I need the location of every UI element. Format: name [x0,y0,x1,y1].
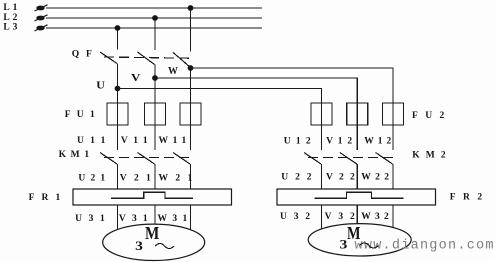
relay FR1 heater element [111,192,193,198]
breaker QF pole 3 blade [173,52,191,67]
wire FR1 to motor M1 phase U [117,205,119,232]
wire FR2 to motor M2 phase U [321,205,323,231]
junction dot L3 tap [115,25,121,31]
wire W phase vertical QF to KM1 [190,68,192,151]
breaker QF linkage dashed [104,57,190,58]
wire L2 rail [46,17,262,19]
wire KM2 pole3 to FR2 [392,164,394,189]
junction dot L1 tap [188,5,194,11]
svg-text:QF: QF [72,50,92,60]
motor M2 body [308,224,411,256]
svg-text:U11: U11 [77,136,106,146]
junction dot L2 tap [152,15,158,21]
wire U phase vertical QF to KM1 [117,64,119,151]
contactor KM1 pole3 blade [173,153,190,165]
svg-text:KM1: KM1 [59,150,90,160]
contactor KM2 pole2 blade [340,153,357,165]
svg-text:3: 3 [340,238,348,252]
wire L3 tap to QF pole1 [117,28,119,50]
wire L2 tap to QF pole2 [154,18,156,50]
wire FR2 to motor M2 phase W [392,205,394,231]
relay FR1 body [73,189,232,205]
node W junction dot [188,65,194,71]
svg-text:W21: W21 [159,173,193,183]
wire KM1 pole3 to FR1 [190,164,192,189]
wire node U feed to FU2 col1 [118,89,322,151]
contactor KM1 linkage dashed [104,157,190,159]
svg-text:www.diangon.com: www.diangon.com [355,239,494,254]
svg-text:KM2: KM2 [412,150,446,160]
svg-text:FU1: FU1 [65,110,95,120]
svg-text:3: 3 [135,238,143,253]
terminal L3 [35,25,48,31]
wire FR2 to motor M2 phase V [356,205,358,225]
terminal L1 [35,5,48,11]
relay FR2 heater element [315,192,404,198]
svg-text:V22: V22 [326,172,355,182]
relay FR2 body [277,189,436,205]
svg-text:U32: U32 [280,212,310,222]
svg-text:U21: U21 [78,173,105,183]
fuse FU2 pole3 [383,103,404,125]
svg-text:W: W [168,66,178,77]
fuse FU1 pole1 [107,103,128,125]
svg-text:FR2: FR2 [450,192,483,202]
contactor KM2 pole1 blade [304,153,321,165]
breaker QF pole 2 blade [138,52,155,65]
svg-text:L2: L2 [3,13,17,23]
contactor KM1 pole2 blade [138,153,155,165]
fuse FU2 pole1 [311,103,332,125]
svg-text:V: V [131,73,141,84]
svg-text:V12: V12 [326,136,352,146]
wire L1 rail [46,7,262,9]
svg-text:W31: W31 [158,214,188,224]
svg-text:M: M [145,223,160,243]
svg-text:FU2: FU2 [412,111,444,121]
wire L3 rail [46,27,262,29]
breaker QF pole 1 blade [100,52,117,64]
wire node W feed to FU2 col3 [191,68,394,150]
svg-text:V31: V31 [119,214,148,224]
wire V phase vertical QF to KM1 [154,65,156,151]
svg-text:U31: U31 [75,214,105,224]
wire KM2 pole1 to FR2 [321,164,323,189]
svg-text:V32: V32 [325,212,355,222]
svg-text:L1: L1 [3,3,17,13]
svg-text:V11: V11 [121,136,148,146]
svg-text:U: U [96,80,105,91]
node U junction dot [115,86,121,92]
svg-text:U22: U22 [281,172,311,182]
wire L1 tap to QF pole3 [190,8,192,52]
fuse FU2 pole2 [347,103,368,125]
svg-text:W22: W22 [361,172,389,182]
node V junction dot [152,75,158,81]
svg-text:FR1: FR1 [29,193,61,203]
motor M1 tilde [155,244,174,249]
contactor KM1 pole1 blade [100,153,117,165]
svg-text:W11: W11 [159,136,187,146]
motor M2 tilde [360,243,379,248]
terminal L2 [35,15,48,21]
wire KM2 pole2 to FR2 [356,164,358,189]
svg-text:L3: L3 [3,23,17,33]
svg-text:U12: U12 [284,136,311,146]
motor M1 body [103,224,205,260]
wire KM1 pole1 to FR1 [117,164,119,189]
contactor KM2 pole3 blade [376,153,393,165]
svg-text:W32: W32 [361,212,389,222]
fuse FU1 pole2 [145,103,166,125]
wire FR1 to motor M1 phase W [190,205,192,232]
svg-text:V21: V21 [120,173,151,183]
fuse FU1 pole3 [180,103,201,125]
wire FR1 to motor M1 phase V [154,205,156,226]
contactor KM2 linkage dashed [308,157,393,159]
wire node V feed to FU2 col2 [155,78,357,150]
svg-text:W12: W12 [364,136,391,146]
wire KM1 pole2 to FR1 [154,164,156,189]
